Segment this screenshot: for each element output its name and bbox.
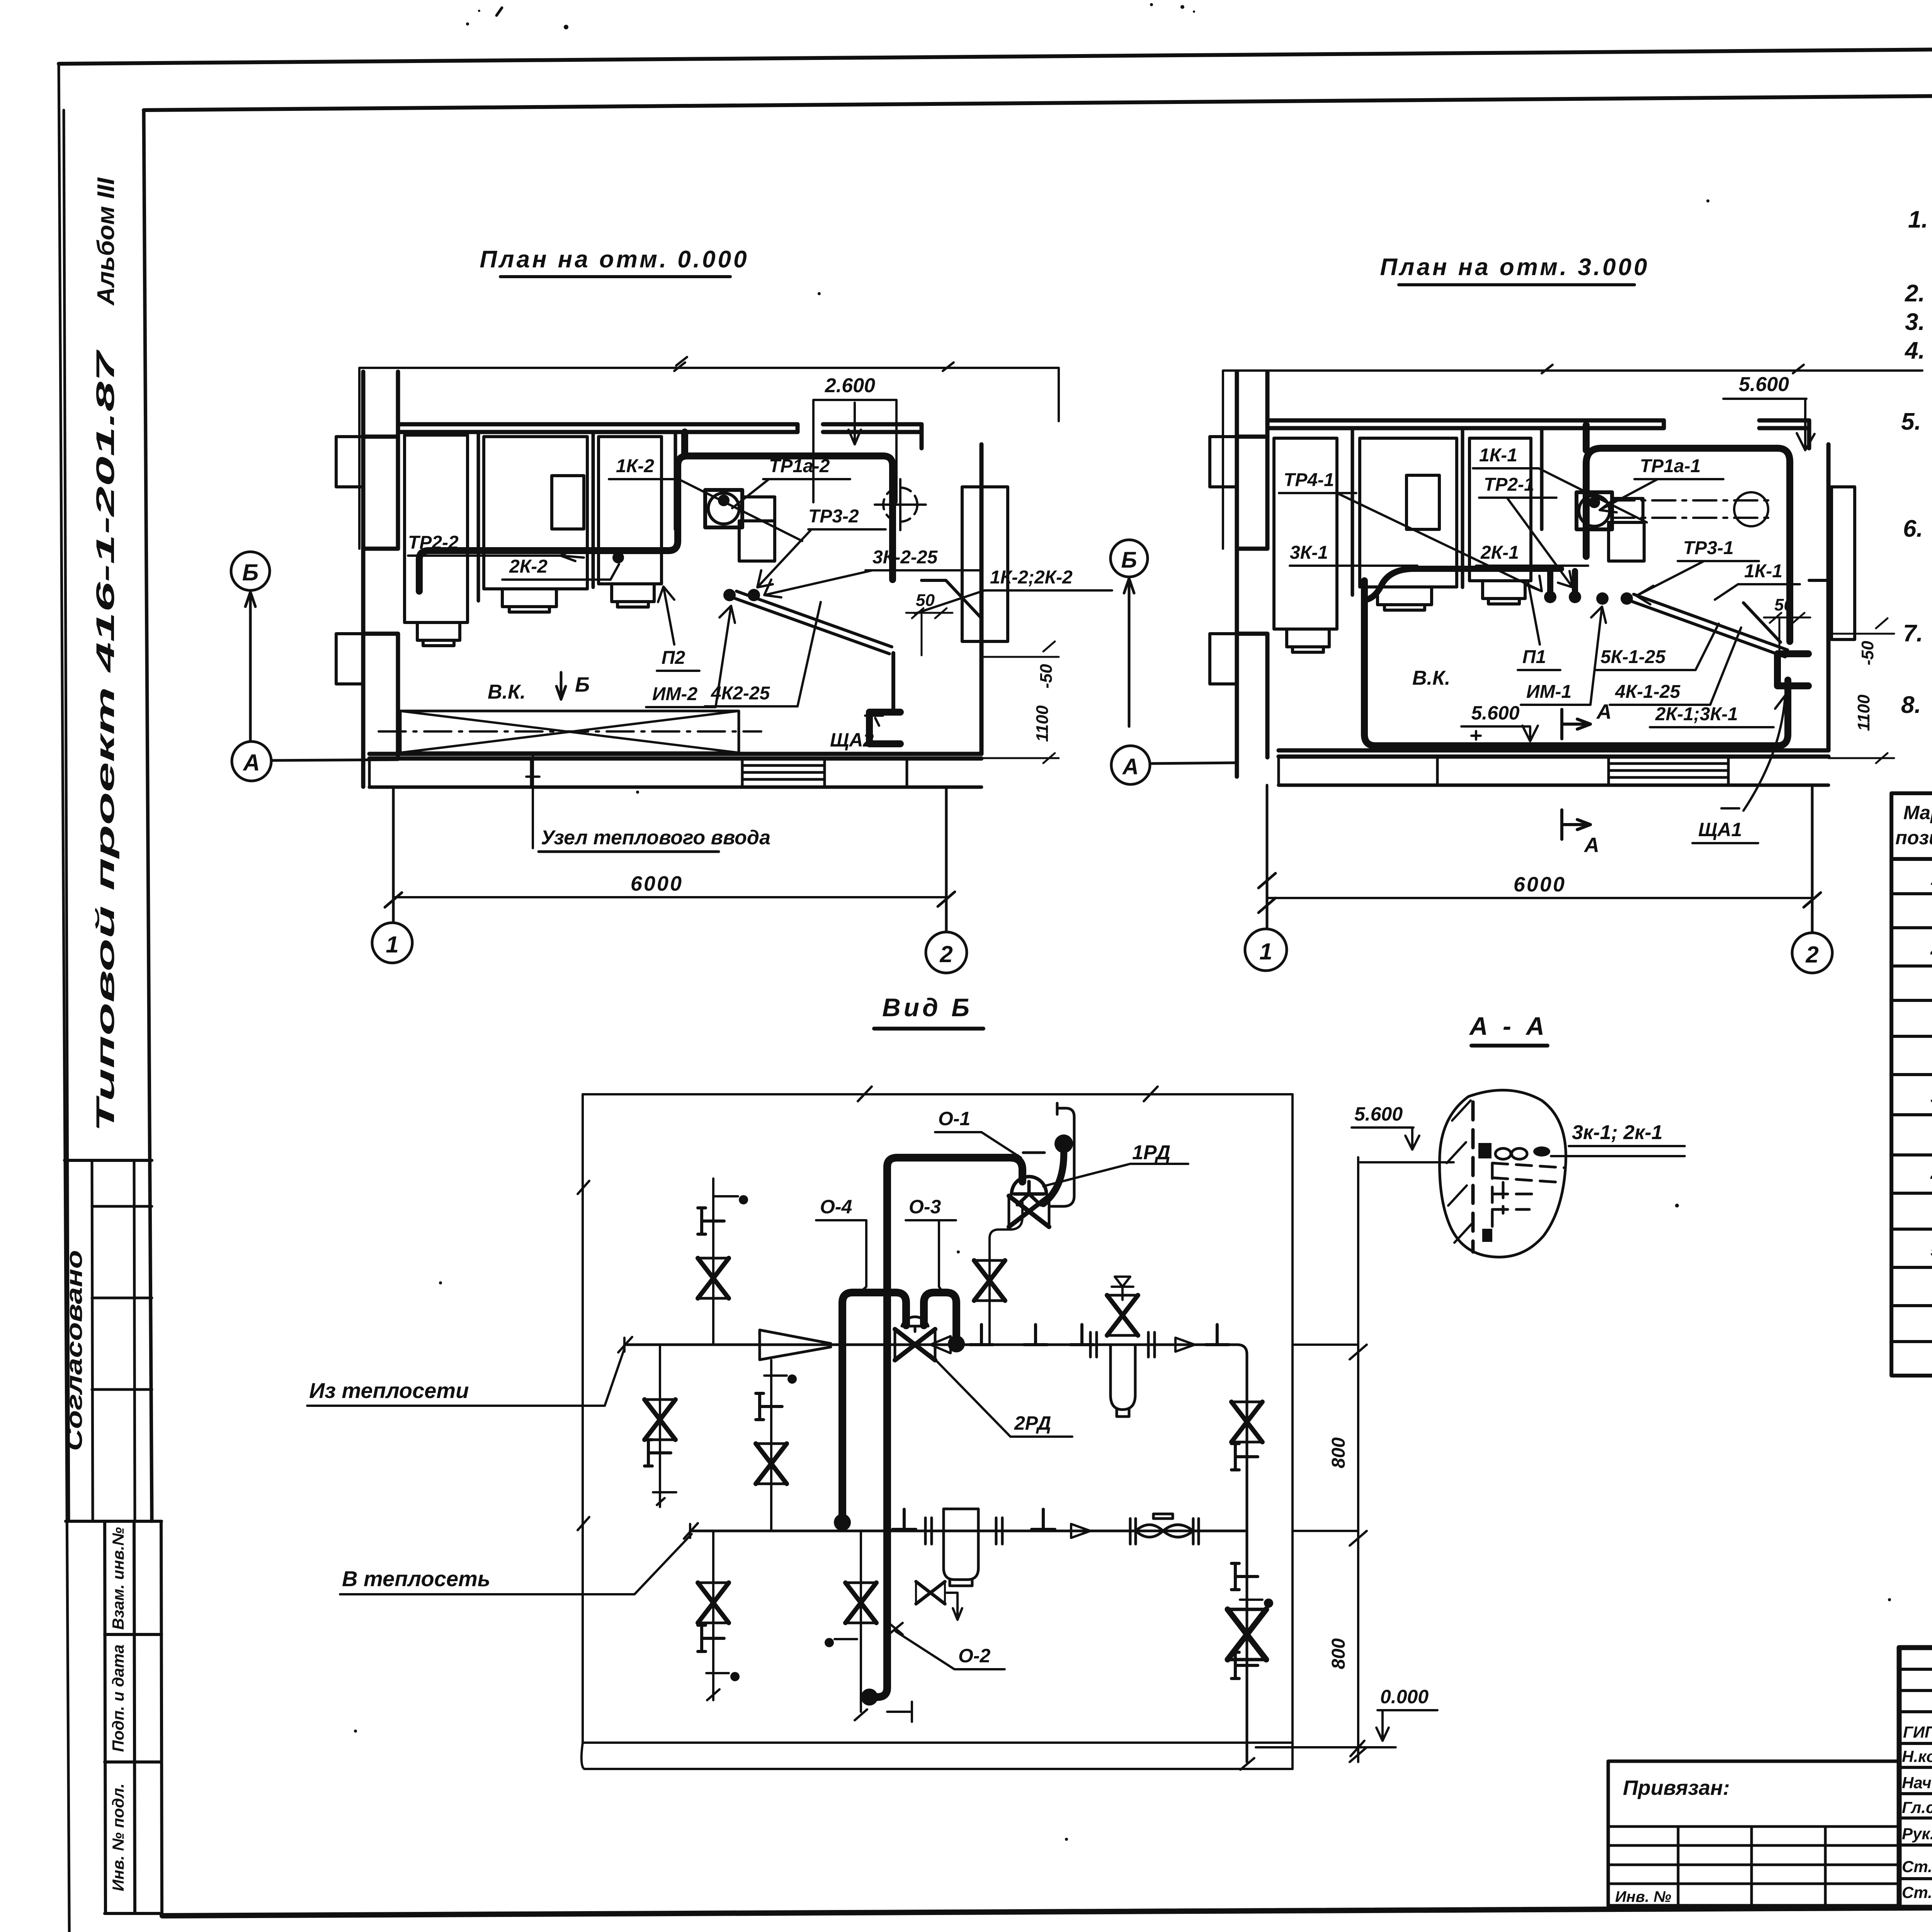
svg-text:План на отм. 3.000: План на отм. 3.000 <box>1380 254 1649 281</box>
svg-text:1.: 1. <box>1908 206 1928 233</box>
inner frame top <box>144 90 1932 110</box>
section AA cable dark oval <box>1533 1146 1550 1156</box>
pin 2228 <box>826 1639 857 1646</box>
titleblock outer box <box>1899 1648 1932 1907</box>
svg-text:800: 800 <box>1328 1437 1349 1468</box>
right leg T mid <box>1231 1563 1258 1590</box>
svg-text:5.600: 5.600 <box>1471 702 1519 724</box>
branch 1846 up <box>712 1179 714 1345</box>
svg-text:6000: 6000 <box>631 872 683 895</box>
branch 2228 lower <box>855 1531 867 1720</box>
svg-text:3К-1: 3К-1 <box>1290 543 1328 563</box>
TITLEBLOCK <box>1899 1648 1932 1907</box>
svg-text:О-1: О-1 <box>938 1108 970 1129</box>
plan2 grid circle А <box>1111 746 1237 784</box>
plan2 below-wall strip boxes <box>1279 757 1828 785</box>
dot pin above 1846 <box>713 1196 747 1203</box>
right dim line <box>1293 1157 1367 1762</box>
plan1 dim line 6000 <box>393 896 946 898</box>
svg-text:50: 50 <box>916 591 935 610</box>
outer border top <box>59 43 1932 64</box>
О-1 underline-leader <box>935 1132 1021 1158</box>
svg-text:Узел теплового ввода: Узел теплового ввода <box>541 827 770 849</box>
gate valve body <box>1136 1514 1193 1537</box>
plan2 fan box <box>1577 492 1612 529</box>
svg-text:В.К.: В.К. <box>1412 667 1450 689</box>
plan1 dim 50 ticks <box>906 608 952 655</box>
branch 1846 lower <box>712 1531 714 1700</box>
plan2 grid circle 2 <box>1792 785 1832 973</box>
plan2 dim 50 ticks <box>1764 613 1810 656</box>
svg-text:Б: Б <box>1121 548 1137 573</box>
2РД side triangle <box>930 1336 951 1353</box>
plan2 fan circle left <box>1579 495 1610 526</box>
svg-text:1: 1 <box>1930 867 1932 889</box>
1РД underline-leader <box>1043 1164 1188 1186</box>
svg-text:1К-1: 1К-1 <box>1744 561 1782 582</box>
viewB frame left <box>582 1094 584 1743</box>
plan1 fan circle <box>708 493 739 524</box>
impulse bottom elbow <box>870 1688 887 1697</box>
plan1 grid circle А <box>232 742 398 781</box>
right leg pin <box>1240 1600 1272 1607</box>
filter2 drain arrow <box>947 1593 962 1620</box>
plan2 fan side rect <box>1612 498 1643 522</box>
plan1 section mark Б <box>556 672 566 699</box>
svg-text:П2: П2 <box>662 648 685 668</box>
plan2 label 4К-1-25 underline <box>1610 628 1741 705</box>
plan1 label 2К-2 underline-leader <box>502 564 619 580</box>
svg-text:5К-1-25: 5К-1-25 <box>1600 647 1666 667</box>
plan2 equipment block 2 <box>1360 438 1457 587</box>
svg-text:Б: Б <box>575 673 590 696</box>
plan1 label ЩА2 overline-leader <box>823 716 889 753</box>
plan2 label 2К-1 leader <box>1476 565 1588 567</box>
svg-text:План на отм. 0.000: План на отм. 0.000 <box>480 246 749 273</box>
Согласовано block grid <box>92 1160 152 1521</box>
plan2 top dimension line <box>1223 365 1922 549</box>
right leg T upper <box>1231 1444 1258 1470</box>
svg-text:1К-1: 1К-1 <box>1479 445 1517 466</box>
svg-text:2К-2: 2К-2 <box>509 556 548 577</box>
svg-text:1К-2;2К-2: 1К-2;2К-2 <box>990 567 1073 588</box>
section AA label underline-leader <box>1551 1146 1685 1156</box>
plan1 label ТР2-2 leader <box>408 549 584 561</box>
plan2 left wall pilasters <box>1210 437 1237 684</box>
svg-text:50: 50 <box>1774 595 1793 614</box>
svg-text:Б: Б <box>242 560 259 585</box>
inner frame left strip <box>144 110 152 1521</box>
plan1 equipment block 1 <box>405 435 468 622</box>
svg-text:3: 3 <box>1930 1086 1932 1107</box>
svg-text:Привязан:: Привязан: <box>1623 1776 1730 1799</box>
parts table row lines <box>1891 894 1932 1342</box>
plan1 cable diagonal run <box>734 591 892 654</box>
svg-text:4К2-25: 4К2-25 <box>711 683 770 704</box>
plan2 label ТР2-1 underline-leader <box>1479 498 1573 587</box>
plan1 right dim ticks <box>981 641 1059 763</box>
plan1 fan outlet box <box>739 521 775 561</box>
plan2 title underline <box>1399 283 1634 286</box>
plan2 label ИМ-1 underline-leader <box>1521 607 1606 705</box>
svg-text:ЩА2: ЩА2 <box>830 729 874 751</box>
plan2 cable entry from top wall <box>1583 425 1590 450</box>
svg-text:3.: 3. <box>1905 309 1925 335</box>
svg-text:О-3: О-3 <box>909 1196 941 1218</box>
plan2 equipment block 1 <box>1274 438 1337 629</box>
svg-text:Взам. инв.№: Взам. инв.№ <box>109 1527 127 1630</box>
plan1 right pilaster blocks <box>962 487 1008 641</box>
valve on 1708 <box>645 1400 675 1440</box>
svg-text:7.: 7. <box>1903 620 1923 647</box>
titleblock signature grid rows <box>1899 1669 1932 1879</box>
lower main pipe <box>690 1530 1247 1532</box>
viewB frame right <box>1291 1094 1294 1769</box>
plan1 label 1К-2 underline <box>609 479 802 541</box>
svg-text:ТР1а-1: ТР1а-1 <box>1640 456 1701 476</box>
svg-text:Инв. №: Инв. № <box>1615 1888 1671 1905</box>
plan1 below-wall strip boxes <box>369 759 907 787</box>
0.000 underline-elbow <box>1256 1710 1437 1756</box>
parts table header bottom <box>1891 857 1932 861</box>
plan2 interior partitions <box>1352 428 1542 595</box>
section AA channel dark marks <box>1478 1143 1492 1242</box>
viewB frame bottom double <box>582 1743 1293 1769</box>
TABLE <box>1891 793 1932 1376</box>
filter2 capsule <box>944 1509 978 1586</box>
section AA wall dashed line <box>1471 1102 1475 1252</box>
valve on 1846 <box>698 1258 729 1298</box>
drain dot 1708 <box>653 1492 676 1505</box>
svg-text:ИМ-2: ИМ-2 <box>652 684 697 704</box>
plan2 vent circle right with axis <box>1611 492 1774 526</box>
2РД underline-leader <box>930 1355 1072 1437</box>
right leg valve lower <box>1228 1609 1266 1660</box>
plan2 right dim ticks <box>1828 618 1894 763</box>
svg-text:Рук.гр.: Рук.гр. <box>1902 1825 1932 1843</box>
plan2 label ЩА1 overline-leader <box>1692 696 1790 843</box>
tsym on 1996 <box>756 1393 782 1420</box>
plan1 label ИМ-2 underline-leader <box>646 606 735 707</box>
impulse long vertical thick <box>887 1158 1016 1688</box>
svg-text:П1: П1 <box>1522 647 1546 667</box>
branch to 1РД <box>990 1202 1022 1345</box>
gate valve flanges <box>1130 1519 1199 1544</box>
branch 1996 up from lower <box>770 1360 772 1531</box>
valve 2228 lower <box>845 1583 876 1623</box>
perp after arrow <box>1206 1325 1229 1345</box>
О-2 underline-leader <box>889 1623 1005 1669</box>
margin strip left edge <box>64 110 69 1521</box>
plan2 top wall right segment <box>1759 420 1809 428</box>
svg-text:А: А <box>242 750 260 776</box>
plan2 cable tray thick route big loop <box>1364 581 1788 746</box>
plan2 ЩА1 panel thick <box>1777 654 1808 686</box>
plan1 label П2 underline-leader <box>657 587 699 671</box>
plan1 label 3К-2-25 underline-leader <box>764 570 981 597</box>
plan1 grid circle 2 <box>926 787 967 973</box>
svg-text:О-2: О-2 <box>958 1645 991 1667</box>
svg-text:ТР2-1: ТР2-1 <box>1484 474 1534 495</box>
svg-text:Вид Б: Вид Б <box>882 993 973 1022</box>
svg-text:Подп. и дата: Подп. и дата <box>109 1645 127 1752</box>
impulse bottom T <box>887 1702 912 1722</box>
upper pipe start tick <box>618 1337 632 1352</box>
svg-text:ТР3-2: ТР3-2 <box>808 506 859 527</box>
plan1 bottom wall <box>369 754 981 759</box>
1РД outlet thick curve <box>1043 1150 1064 1204</box>
impulse thick left loop <box>842 1293 906 1517</box>
tsym on 1708 <box>645 1440 671 1466</box>
lower main perp symbols <box>893 1509 1055 1529</box>
parts table outer box <box>1891 793 1932 1376</box>
plan1 ЩА2 panel thick <box>869 712 900 744</box>
plan2 label ТР3-1 underline-leader <box>1636 561 1759 604</box>
perp symbols upper main <box>970 1325 1094 1345</box>
plan2 bottom wall <box>1279 750 1828 757</box>
flow arrow lower <box>1071 1524 1090 1538</box>
branch left 1708 down <box>659 1345 661 1507</box>
plan1 cable tray thick route <box>419 456 893 591</box>
svg-text:А: А <box>1596 700 1612 723</box>
valve on 2561 <box>974 1260 1005 1301</box>
valve on 1996 <box>756 1444 787 1484</box>
svg-text:ЩА1: ЩА1 <box>1698 819 1742 840</box>
svg-text:позиция: позиция <box>1895 827 1932 849</box>
plan2 dim 5.600 bottom leader <box>1461 726 1538 741</box>
svg-text:Ст.инж.: Ст.инж. <box>1902 1857 1932 1876</box>
plan2 left wall <box>1237 372 1267 777</box>
svg-text:А: А <box>1583 833 1599 857</box>
plan1 grid circle 1 <box>372 787 412 963</box>
plan1 label ТР1а-2 underline-leader <box>732 479 850 508</box>
plan1 cable entry from top wall <box>681 432 688 456</box>
plan1 equipment block 2 <box>484 437 587 589</box>
plan2 label 5К-1-25 underline <box>1595 624 1719 670</box>
svg-text:2: 2 <box>939 941 952 967</box>
plan2 label 3К-1 leader <box>1290 565 1417 567</box>
plan2 dim 5.600 top leader <box>1723 399 1815 450</box>
svg-text:2К-1: 2К-1 <box>1480 543 1519 563</box>
plan2 dim line 6000 <box>1267 897 1812 899</box>
plan2 label ТР1а-1 underline-leader <box>1600 479 1723 512</box>
plan1 interior partitions <box>478 432 675 601</box>
plan1 grid circle Б <box>231 552 270 741</box>
svg-text:Н.контр.: Н.контр. <box>1902 1747 1932 1765</box>
svg-text:5: 5 <box>1930 1239 1932 1261</box>
NOTES <box>1901 206 1932 790</box>
filter1 top valve <box>1107 1295 1138 1335</box>
О-3 underline-leader <box>906 1220 956 1294</box>
plan2 section mark А upper <box>1562 709 1590 739</box>
T below 1846 lower <box>698 1625 724 1651</box>
svg-text:1РД: 1РД <box>1132 1141 1170 1164</box>
outer border left <box>59 64 70 1932</box>
plan1 label 4К2-25 underline-leader <box>705 602 821 706</box>
plan1 bottom outer line <box>369 786 981 789</box>
plan2 fan outlet box <box>1609 522 1644 561</box>
impulse thick right loop <box>924 1293 956 1338</box>
plan2 label П1 underline-leader <box>1518 583 1560 670</box>
plan2 equipment block 2 inner <box>1406 475 1439 529</box>
привязан block <box>1608 1761 1899 1906</box>
plan1 equipment block 2 inner <box>552 476 584 529</box>
impulse bottom dot <box>861 1689 878 1706</box>
svg-text:4: 4 <box>1930 1164 1932 1186</box>
plan1 label 1К-2;2К-2 underline <box>915 590 1112 614</box>
svg-text:А - А: А - А <box>1469 1012 1548 1040</box>
svg-text:4К-1-25: 4К-1-25 <box>1615 682 1681 702</box>
plan2 equipment block 3 pedestal <box>1483 581 1525 604</box>
svg-text:2: 2 <box>1930 937 1932 959</box>
svg-text:1: 1 <box>386 932 398 957</box>
svg-text:Марка,: Марка, <box>1903 802 1932 823</box>
2РД actuator dome <box>902 1317 928 1332</box>
svg-text:800: 800 <box>1328 1638 1349 1669</box>
filter1 flanges <box>1090 1332 1155 1357</box>
plan2 equipment block 2 pedestal <box>1378 587 1432 610</box>
Из теплосети underline-leader <box>307 1349 624 1406</box>
plan1 title underline <box>500 275 730 278</box>
svg-text:3к-1; 2к-1: 3к-1; 2к-1 <box>1572 1121 1663 1144</box>
svg-text:В.К.: В.К. <box>488 681 526 703</box>
svg-text:В теплосеть: В теплосеть <box>342 1566 490 1591</box>
svg-text:5.: 5. <box>1901 408 1921 435</box>
plan1 right wall <box>922 424 981 754</box>
svg-text:1К-2: 1К-2 <box>616 456 654 476</box>
view B title underline <box>874 1027 983 1031</box>
1РД feed elbow <box>1010 1158 1022 1182</box>
plan2 top wall <box>1267 420 1664 428</box>
svg-text:Из теплосети: Из теплосети <box>309 1378 469 1403</box>
svg-text:2РД: 2РД <box>1014 1412 1051 1434</box>
svg-text:6.: 6. <box>1903 515 1923 542</box>
plan2 grid circle 1 <box>1245 785 1287 971</box>
plan1 left wall <box>363 372 398 787</box>
svg-text:8.: 8. <box>1901 692 1921 718</box>
svg-text:ТР4-1: ТР4-1 <box>1284 470 1334 490</box>
SPECKLES <box>354 3 1932 1841</box>
svg-text:Типовой проект 416-1-201.87: Типовой проект 416-1-201.87 <box>91 349 119 1132</box>
plan1 heat node crossed box <box>379 711 761 753</box>
svg-text:4.: 4. <box>1904 337 1925 364</box>
right leg bottom squiggle <box>1240 1758 1254 1770</box>
plan1 label leader Узел теплового ввода <box>526 755 539 848</box>
plan1 top dimension line <box>359 357 1059 549</box>
plan1 left wall pilasters <box>336 437 363 684</box>
plan2 label 1К-1 underline <box>1473 468 1647 522</box>
outer border bottom <box>162 1904 1932 1916</box>
section AA title underline <box>1471 1044 1548 1048</box>
plan1 junction dots <box>612 495 760 601</box>
svg-text:О-4: О-4 <box>820 1196 852 1218</box>
filter2 drain valve <box>916 1582 945 1604</box>
plan1 equipment block 1 pedestal <box>417 622 460 646</box>
О-4 underline-leader <box>816 1220 866 1294</box>
plan2 cable thick top loop <box>1586 448 1790 641</box>
viewB frame top <box>583 1087 1293 1101</box>
filter2 flanges <box>925 1518 1002 1544</box>
svg-text:2К-1;3К-1: 2К-1;3К-1 <box>1655 704 1738 724</box>
reducer cone <box>760 1330 831 1360</box>
section AA cable ovals <box>1495 1148 1527 1159</box>
plan1 tambour diagonal <box>922 580 981 618</box>
plan2 cable elbow pair near ТР4-1 <box>1366 569 1575 600</box>
plan2 label 1К-1 right underline <box>1715 584 1800 600</box>
plan2 bottom outer line <box>1279 784 1828 787</box>
plan2 junction dots <box>1544 497 1633 605</box>
svg-text:Гл.спец.: Гл.спец. <box>1902 1798 1932 1816</box>
plan1 top wall <box>398 424 798 432</box>
plan2 right wall <box>1809 420 1828 750</box>
plan1 porch stripes <box>742 765 825 779</box>
viewB frame break marks left <box>578 1181 589 1530</box>
svg-text:Нач.отд.: Нач.отд. <box>1902 1774 1932 1792</box>
plan1 equipment block 3 <box>599 437 662 584</box>
plan1 fan unit box <box>705 490 742 527</box>
strip divider под Альбом <box>65 1159 152 1162</box>
plan2 cable diagonal run <box>1631 594 1787 657</box>
plan2 section mark А lower <box>1562 810 1590 839</box>
impulse dot on main <box>948 1335 965 1352</box>
svg-text:ТР3-1: ТР3-1 <box>1683 538 1734 558</box>
svg-text:Инв. № подл.: Инв. № подл. <box>109 1783 127 1891</box>
svg-text:5.600: 5.600 <box>1739 373 1789 396</box>
1РД valve <box>1009 1196 1049 1227</box>
plan1 equipment block 3 pedestal <box>612 584 654 607</box>
lower pipe start tick <box>684 1523 698 1539</box>
svg-text:1: 1 <box>1259 939 1272 964</box>
svg-text:Согласовано: Согласовано <box>62 1250 87 1451</box>
plan1 top wall right segment <box>823 424 922 432</box>
pin 1996 <box>764 1376 796 1383</box>
svg-text:ГИП: ГИП <box>1903 1723 1932 1741</box>
filter1 capsule <box>1111 1345 1135 1417</box>
plan2 porch stripes <box>1609 764 1728 777</box>
stamp column bottom-left <box>66 1521 162 1913</box>
svg-text:2.600: 2.600 <box>825 374 875 397</box>
svg-text:Ст.инж.: Ст.инж. <box>1902 1883 1932 1901</box>
right leg T bottom <box>1231 1652 1258 1679</box>
impulse dot lower <box>834 1514 851 1531</box>
plan1 label ТР3-2 leader <box>757 529 886 587</box>
plan2 right pilaster blocks <box>1832 487 1855 639</box>
svg-text:5.600: 5.600 <box>1354 1103 1403 1125</box>
section AA blob outline <box>1440 1090 1566 1257</box>
plan1 cable drop to panel <box>891 653 895 710</box>
plan2 label ТР4-1 underline-leader <box>1279 493 1542 591</box>
svg-text:2: 2 <box>1805 942 1818 968</box>
svg-text:ТР1а-2: ТР1а-2 <box>769 456 830 476</box>
valve 1846 lower <box>698 1583 729 1623</box>
1РД actuator dome <box>1012 1177 1046 1205</box>
plan2 tambour diagonal <box>1743 580 1828 642</box>
plan1 label underline <box>539 850 719 853</box>
section AA wall hatch <box>1447 1100 1471 1243</box>
1РД outlet dot <box>1054 1134 1073 1153</box>
plan1 equipment block 2 pedestal <box>502 589 556 612</box>
В теплосеть underline-leader <box>340 1534 692 1594</box>
plan1 dim 2.600 <box>813 400 896 502</box>
filter1 top valve stem <box>1112 1277 1133 1300</box>
svg-text:ТР2-2: ТР2-2 <box>408 532 459 553</box>
svg-text:6000: 6000 <box>1514 873 1566 896</box>
plan1 vent circle with crosshair <box>875 479 926 530</box>
plan2 label 2К-1;3К-1 underline <box>1650 726 1774 728</box>
plan2 equipment block 1 pedestal <box>1287 629 1329 652</box>
5.600 underline-arrow <box>1352 1128 1454 1162</box>
svg-text:А: А <box>1122 754 1139 779</box>
